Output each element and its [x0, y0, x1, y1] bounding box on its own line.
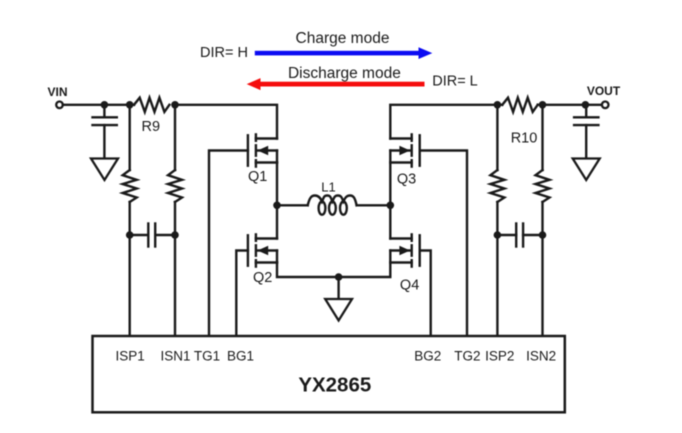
wire VOUT rail (R10 to terminal) [538, 104, 602, 106]
resistor (ISN2 sense leg) [536, 170, 550, 202]
arrow charge mode (blue) [255, 47, 432, 59]
svg-text:BG1: BG1 [227, 349, 254, 364]
junction ISN1 tap [171, 101, 179, 109]
IC U1 YX2865 box [93, 336, 565, 412]
wire ISN2 leg upper [541, 105, 543, 170]
svg-text:Q4: Q4 [400, 278, 419, 294]
resistor (ISN1 sense leg) [168, 170, 182, 202]
ground (VIN bypass) [91, 159, 118, 181]
svg-text:L1: L1 [321, 179, 335, 194]
transistor Q4 [390, 234, 419, 266]
svg-text:Charge mode: Charge mode [296, 30, 390, 47]
wire ground rail (Q2 source to Q4 source) [277, 263, 390, 278]
ground (power stage) [325, 277, 352, 321]
capacitor (VIN bypass) [93, 105, 117, 159]
svg-text:ISP2: ISP2 [485, 349, 514, 364]
svg-text:TG2: TG2 [454, 349, 480, 364]
transistor Q1 [248, 134, 277, 166]
resistor (ISP2 sense leg) [490, 170, 504, 202]
junction ISP2 tap [494, 101, 502, 109]
junction VIN bypass tap [101, 101, 109, 109]
node VIN terminal [56, 102, 63, 109]
inductor L1 [277, 196, 390, 215]
wire Q3 source to SW2 [389, 163, 391, 206]
wire ISP2 leg upper [496, 105, 498, 170]
junction right sense cap (ISP2 side) [494, 231, 502, 239]
junction ISN2 tap [539, 101, 547, 109]
transistor Q2 [248, 234, 277, 266]
svg-text:BG2: BG2 [414, 349, 441, 364]
resistor R10 [502, 98, 537, 112]
svg-text:ISN1: ISN1 [160, 349, 190, 364]
wire SW1 to Q2 drain [276, 205, 278, 238]
wire BG2 (Q4 gate to IC pin BG2) [420, 251, 431, 337]
capacitor (left sense filter) [130, 224, 175, 247]
svg-text:VOUT: VOUT [587, 84, 621, 98]
junction left sense cap (ISN1 side) [171, 231, 179, 239]
junction ISP1 tap [126, 101, 134, 109]
svg-text:TG1: TG1 [194, 349, 220, 364]
arrow discharge mode (red) [247, 78, 425, 90]
svg-text:Q2: Q2 [253, 270, 272, 286]
wire ISP1 leg upper [128, 105, 130, 170]
wire ISP2 leg lower (to IC pin ISP2) [496, 202, 498, 337]
junction right sense cap (ISN2 side) [539, 231, 547, 239]
svg-text:VIN: VIN [47, 85, 67, 99]
wire TG2 (Q3 gate to IC pin TG2) [420, 151, 467, 337]
wire Q3 drain riser + VOUT rail to R10 [390, 105, 502, 139]
junction left sense cap (ISP1 side) [126, 231, 134, 239]
resistor R9 [134, 98, 169, 112]
node VOUT terminal [602, 102, 609, 109]
wire ISN2 leg lower (to IC pin ISN2) [541, 202, 543, 337]
transistor Q3 [390, 134, 419, 166]
wire BG1 (Q2 gate to IC pin BG1) [236, 251, 248, 337]
svg-text:DIR= L: DIR= L [432, 74, 478, 90]
capacitor (VOUT bypass) [574, 105, 598, 159]
svg-text:Discharge mode: Discharge mode [288, 65, 401, 82]
wire ISP1 leg lower (to IC pin ISP1) [128, 202, 130, 337]
svg-text:YX2865: YX2865 [298, 374, 371, 397]
wire SW2 to Q4 drain [389, 205, 391, 238]
svg-text:Q1: Q1 [248, 169, 267, 185]
ground (VOUT bypass) [573, 159, 600, 181]
wire ISN1 leg lower (to IC pin ISN1) [174, 202, 176, 337]
node SW1 [273, 202, 281, 210]
svg-text:R9: R9 [142, 119, 161, 135]
svg-text:R10: R10 [511, 131, 538, 147]
node SW2 [387, 202, 395, 210]
wire VIN rail to Q1 drain [175, 105, 277, 139]
junction VOUT cap tap [582, 101, 590, 109]
wire VIN rail (terminal to R9) [63, 104, 134, 106]
svg-text:Q3: Q3 [397, 172, 416, 188]
svg-text:ISN2: ISN2 [526, 349, 556, 364]
resistor (ISP1 sense leg) [123, 170, 137, 202]
wire ISN1 leg upper [174, 105, 176, 170]
node ground rail junction [335, 273, 343, 281]
capacitor (right sense filter) [497, 224, 542, 247]
wire Q1 source to SW1 [276, 163, 278, 206]
wire TG1 (Q1 gate to IC pin TG1) [209, 151, 248, 337]
svg-text:ISP1: ISP1 [116, 349, 145, 364]
svg-text:DIR= H: DIR= H [200, 45, 248, 61]
